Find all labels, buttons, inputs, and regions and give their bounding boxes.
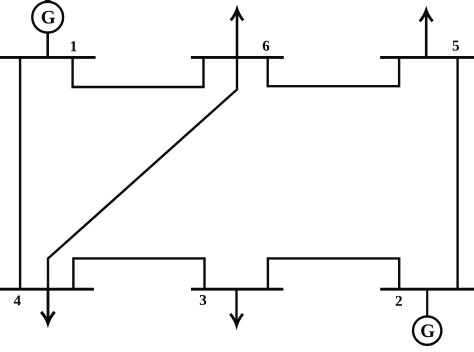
bus 5 xyxy=(380,56,474,59)
bus 3 xyxy=(191,288,283,291)
node label 6 xyxy=(263,41,270,51)
wire bus 2 to G2 xyxy=(426,288,428,316)
bus 4 xyxy=(0,288,94,291)
wire line 6-5 xyxy=(268,57,399,86)
wire line 1-4 xyxy=(19,57,21,289)
load arrow at bus 4 (down) xyxy=(47,289,50,321)
bus 1 xyxy=(0,56,96,59)
load arrow at bus 3 (down) xyxy=(235,289,237,323)
node label 5 xyxy=(453,41,459,51)
node label 3 xyxy=(200,295,206,305)
bus 6 xyxy=(191,56,284,59)
bus 2 xyxy=(380,288,474,291)
wire line 3-2 xyxy=(268,258,399,289)
wire line 5-2 xyxy=(456,57,458,289)
wire line 4-3 xyxy=(73,258,204,289)
node label 2 xyxy=(396,296,402,306)
generator G1 top stub xyxy=(45,0,51,2)
generator G2 label xyxy=(421,324,434,337)
wire G1 to bus 1 xyxy=(46,33,49,58)
load arrow at bus 6 (up) xyxy=(236,11,239,58)
wire line 1-6 xyxy=(73,57,204,87)
wire line 6-4 (diagonal) xyxy=(48,57,237,289)
node label 4 xyxy=(14,296,21,306)
generator G1 label xyxy=(42,11,55,24)
generator G1 xyxy=(32,2,63,33)
load arrow at bus 5 (up) xyxy=(425,12,428,58)
node label 1 xyxy=(71,41,77,51)
generator G2 xyxy=(413,316,441,344)
